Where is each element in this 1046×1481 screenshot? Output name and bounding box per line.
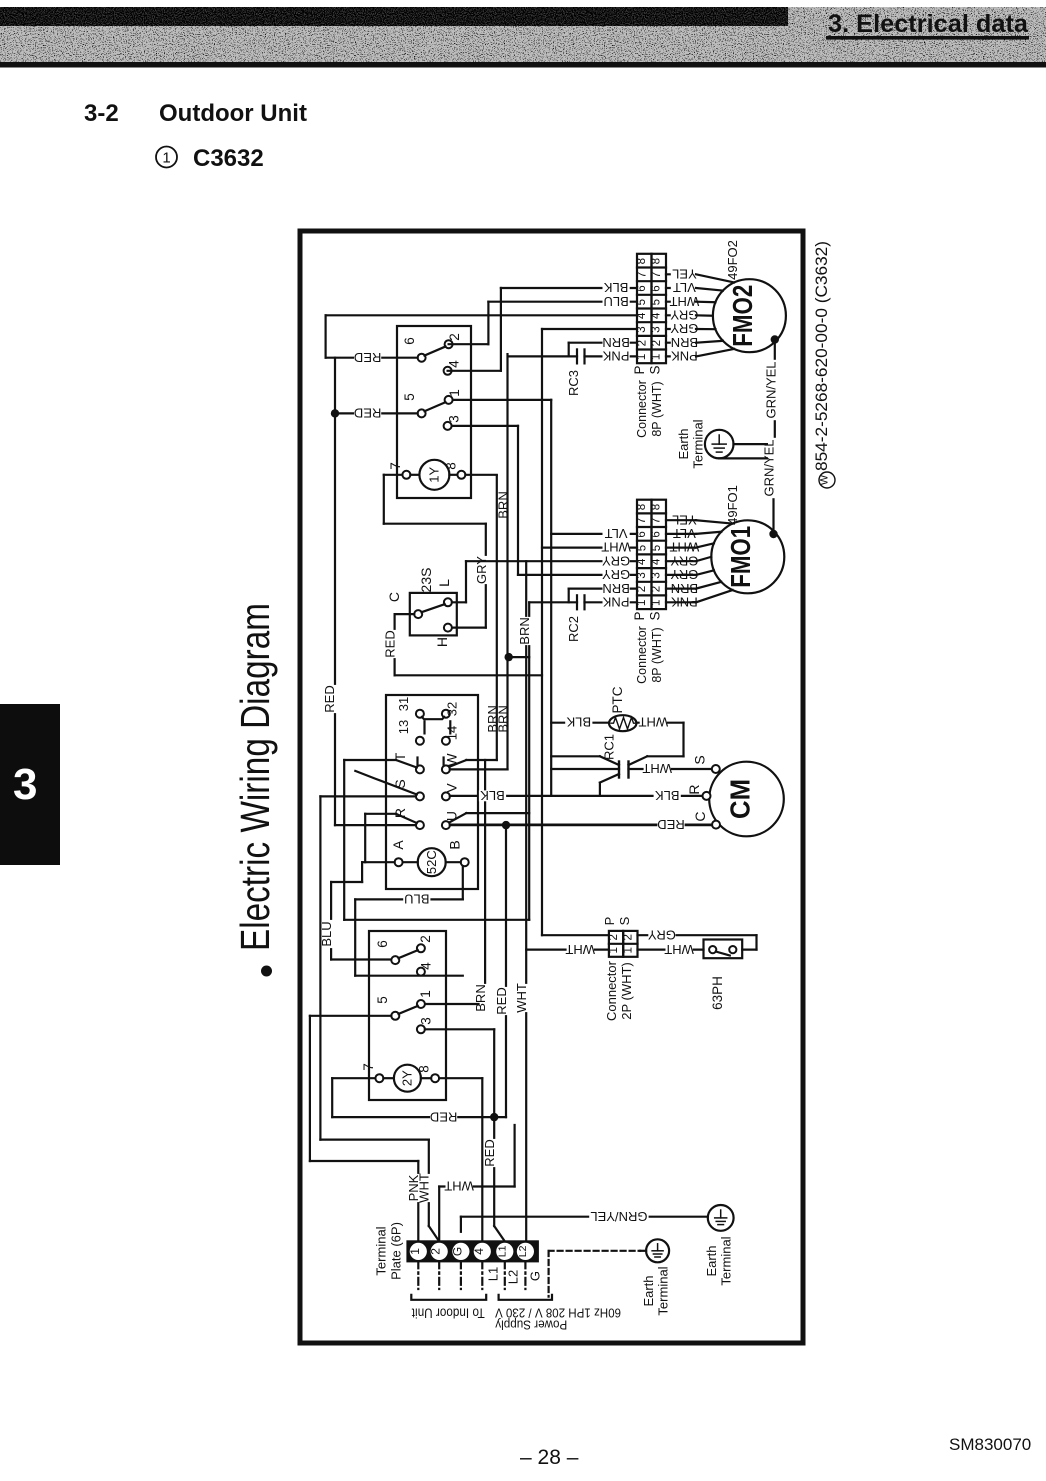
svg-text:7: 7	[388, 462, 403, 470]
svg-text:WHT: WHT	[444, 1179, 474, 1194]
svg-text:23S: 23S	[418, 568, 434, 593]
svg-text:WHT: WHT	[642, 761, 672, 776]
svg-text:FMO1: FMO1	[725, 526, 756, 588]
svg-text:52C: 52C	[424, 850, 439, 874]
svg-text:– 28 –: – 28 –	[520, 1446, 579, 1469]
svg-text:BLK: BLK	[566, 715, 591, 730]
svg-text:WHT: WHT	[565, 942, 595, 957]
svg-text:W: W	[819, 474, 831, 485]
svg-text:7: 7	[636, 518, 648, 524]
svg-text:6: 6	[651, 531, 663, 537]
svg-text:1: 1	[651, 600, 663, 606]
svg-text:Power Supply: Power Supply	[495, 1318, 568, 1332]
svg-text:VLT: VLT	[605, 526, 628, 541]
svg-text:BLK: BLK	[655, 788, 680, 803]
svg-text:6: 6	[375, 940, 390, 948]
svg-text:C: C	[692, 811, 708, 821]
svg-text:Connector: Connector	[635, 626, 649, 684]
svg-text:31: 31	[396, 697, 411, 711]
svg-text:Earth: Earth	[704, 1245, 719, 1276]
svg-text:5: 5	[375, 996, 390, 1004]
svg-text:To Indoor Unit: To Indoor Unit	[412, 1306, 485, 1321]
svg-text:1: 1	[418, 990, 433, 998]
svg-text:R: R	[392, 808, 408, 818]
svg-text:S: S	[648, 611, 663, 620]
svg-text:G: G	[450, 1247, 464, 1256]
svg-text:Plate (6P): Plate (6P)	[389, 1222, 404, 1280]
svg-text:4: 4	[419, 962, 434, 970]
svg-text:CM: CM	[725, 779, 756, 819]
svg-text:WHT: WHT	[638, 715, 668, 730]
svg-text:V: V	[444, 783, 460, 793]
svg-text:2: 2	[651, 340, 663, 346]
svg-text:L1: L1	[486, 1267, 501, 1281]
svg-text:8: 8	[417, 1065, 432, 1073]
svg-text:RED: RED	[430, 1109, 457, 1124]
svg-text:49FO1: 49FO1	[725, 485, 740, 525]
svg-text:Connector: Connector	[604, 960, 619, 1021]
svg-text:Terminal: Terminal	[656, 1266, 671, 1315]
svg-text:3. Electrical data: 3. Electrical data	[828, 10, 1029, 38]
svg-text:8P (WHT): 8P (WHT)	[650, 381, 664, 436]
svg-text:S: S	[392, 779, 408, 788]
svg-text:60Hz 1PH 208 V / 230 V: 60Hz 1PH 208 V / 230 V	[494, 1306, 621, 1320]
svg-text:Outdoor Unit: Outdoor Unit	[159, 100, 307, 127]
svg-text:RC1: RC1	[602, 734, 617, 760]
svg-text:C3632: C3632	[193, 145, 264, 172]
svg-text:BLU: BLU	[404, 892, 429, 907]
svg-text:W: W	[444, 753, 460, 767]
svg-text:6: 6	[402, 337, 417, 345]
svg-text:RC3: RC3	[566, 370, 581, 396]
svg-text:BLK: BLK	[480, 788, 505, 803]
svg-text:GRY: GRY	[602, 553, 630, 568]
svg-text:WHT: WHT	[417, 1173, 432, 1203]
svg-text:1Y: 1Y	[427, 467, 442, 483]
svg-text:8: 8	[651, 504, 663, 510]
svg-text:3: 3	[651, 572, 663, 578]
svg-text:8: 8	[636, 504, 648, 510]
svg-text:RED: RED	[354, 406, 381, 421]
svg-text:RED: RED	[322, 685, 337, 712]
svg-text:A: A	[390, 840, 406, 850]
svg-text:1: 1	[408, 1248, 422, 1255]
svg-text:2P (WHT): 2P (WHT)	[619, 962, 634, 1020]
svg-text:3: 3	[651, 326, 663, 332]
svg-text:R: R	[686, 784, 702, 794]
svg-text:2: 2	[651, 586, 663, 592]
svg-text:S: S	[691, 755, 707, 764]
svg-text:3: 3	[13, 760, 37, 809]
svg-text:G: G	[528, 1271, 543, 1281]
svg-text:2: 2	[418, 935, 433, 943]
svg-text:63PH: 63PH	[710, 976, 725, 1010]
svg-text:8: 8	[636, 258, 648, 264]
svg-text:2: 2	[429, 1248, 443, 1255]
svg-text:Terminal: Terminal	[719, 1236, 734, 1285]
svg-text:32: 32	[445, 702, 460, 716]
svg-text:GRN/YEL: GRN/YEL	[762, 439, 777, 496]
svg-text:Terminal: Terminal	[691, 419, 706, 468]
svg-text:C: C	[386, 592, 402, 602]
svg-text:BLK: BLK	[603, 280, 628, 295]
svg-text:8P (WHT): 8P (WHT)	[650, 627, 664, 682]
svg-text:1: 1	[162, 150, 170, 167]
svg-text:1: 1	[623, 947, 635, 953]
svg-text:7: 7	[636, 272, 648, 278]
svg-text:BRN: BRN	[602, 335, 629, 350]
svg-text:RED: RED	[354, 350, 381, 365]
svg-text:H: H	[434, 637, 450, 647]
svg-text:L2: L2	[517, 1245, 529, 1257]
svg-text:P: P	[602, 917, 617, 926]
svg-text:Electric Wiring Diagram: Electric Wiring Diagram	[232, 603, 278, 951]
svg-text:RED: RED	[494, 987, 509, 1014]
svg-text:WHT: WHT	[664, 942, 694, 957]
svg-text:S: S	[648, 365, 663, 374]
svg-text:2: 2	[608, 934, 620, 940]
svg-text:5: 5	[402, 393, 417, 401]
svg-text:5: 5	[651, 545, 663, 551]
svg-text:4: 4	[651, 558, 663, 565]
svg-text:RED: RED	[383, 630, 398, 657]
svg-text:1: 1	[608, 947, 620, 953]
svg-text:WHT: WHT	[514, 983, 529, 1013]
svg-text:Terminal: Terminal	[374, 1226, 389, 1275]
svg-text:RED: RED	[482, 1139, 497, 1166]
svg-text:RC2: RC2	[566, 616, 581, 642]
svg-text:2: 2	[623, 934, 635, 940]
svg-text:YEL: YEL	[672, 267, 697, 282]
svg-text:BRN: BRN	[517, 617, 532, 644]
svg-text:B: B	[447, 840, 463, 849]
svg-text:7: 7	[651, 272, 663, 278]
svg-text:T: T	[392, 752, 408, 761]
svg-text:7: 7	[651, 518, 663, 524]
svg-text:4: 4	[447, 360, 462, 368]
svg-text:S: S	[617, 916, 632, 925]
svg-text:BRN: BRN	[473, 984, 488, 1011]
svg-text:L2: L2	[506, 1270, 521, 1284]
svg-text:L: L	[436, 579, 452, 587]
svg-text:1: 1	[651, 354, 663, 360]
svg-text:7: 7	[361, 1063, 376, 1071]
svg-text:854-2-5268-620-00-0 (C3632): 854-2-5268-620-00-0 (C3632)	[813, 241, 831, 471]
svg-text:3: 3	[419, 1017, 434, 1025]
svg-text:8: 8	[444, 462, 459, 470]
svg-text:13: 13	[396, 720, 411, 734]
svg-text:8: 8	[651, 258, 663, 264]
svg-text:5: 5	[651, 299, 663, 305]
svg-text:U: U	[444, 811, 460, 821]
svg-text:Earth: Earth	[641, 1275, 656, 1306]
svg-text:RED: RED	[657, 817, 684, 832]
svg-text:P: P	[632, 611, 647, 620]
svg-text:FMO2: FMO2	[727, 285, 758, 347]
svg-text:4: 4	[472, 1248, 486, 1255]
svg-text:1: 1	[447, 389, 462, 397]
svg-text:3: 3	[447, 415, 462, 423]
svg-text:6: 6	[651, 285, 663, 291]
svg-text:GRN/YEL: GRN/YEL	[764, 361, 779, 418]
svg-text:GRY: GRY	[670, 308, 698, 323]
svg-text:GRY: GRY	[474, 556, 489, 584]
svg-text:2Y: 2Y	[400, 1070, 415, 1086]
svg-text:3-2: 3-2	[84, 100, 119, 127]
svg-text:49FO2: 49FO2	[725, 240, 740, 280]
svg-text:PTC: PTC	[610, 686, 625, 713]
svg-text:P: P	[632, 365, 647, 374]
svg-text:GRN/YEL: GRN/YEL	[590, 1209, 647, 1224]
svg-text:2: 2	[447, 333, 462, 341]
svg-text:14: 14	[445, 726, 460, 740]
svg-text:L1: L1	[496, 1245, 508, 1257]
svg-text:4: 4	[651, 312, 663, 319]
svg-text:SM830070: SM830070	[949, 1435, 1031, 1454]
svg-text:Earth: Earth	[676, 428, 691, 459]
svg-text:GRY: GRY	[648, 927, 676, 942]
svg-text:Connector: Connector	[635, 380, 649, 438]
